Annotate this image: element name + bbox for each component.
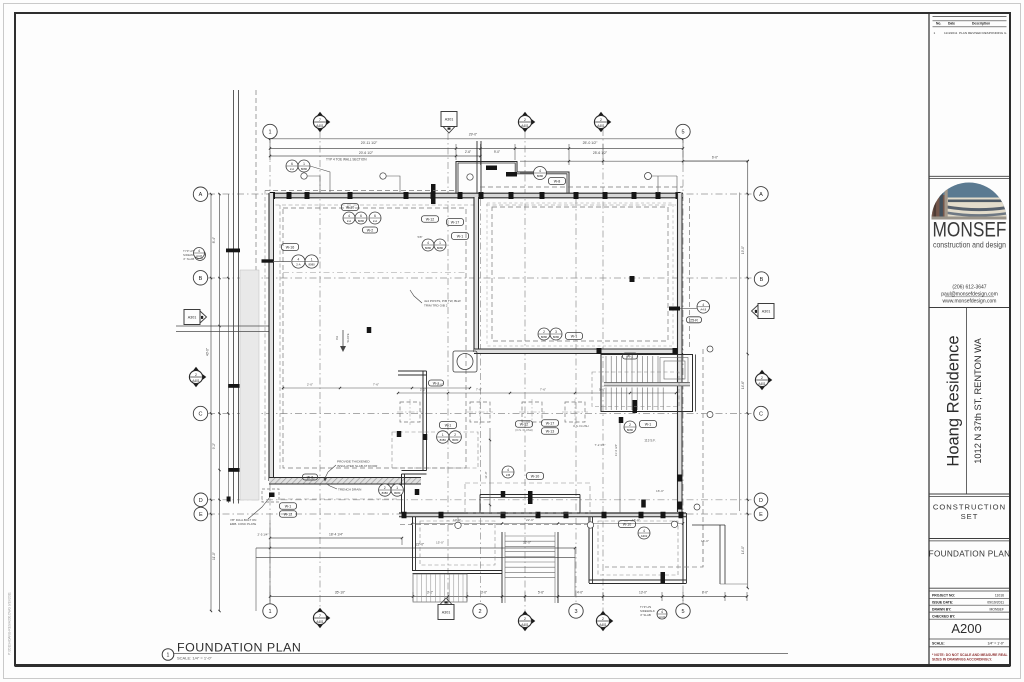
svg-text:113 S.F.: 113 S.F. [644, 439, 656, 443]
svg-text:1: 1 [268, 609, 271, 615]
svg-text:19'-0": 19'-0" [741, 246, 745, 254]
svg-text:8080: 8080 [382, 491, 389, 495]
svg-text:8080: 8080 [437, 246, 444, 250]
grid bubble 2 bottom [473, 604, 487, 618]
svg-text:SET: SET [961, 512, 979, 521]
svg-text:PLAN REVISED RESPONDING G: PLAN REVISED RESPONDING G [959, 31, 1007, 35]
svg-text:A: A [199, 192, 203, 198]
svg-text:PROVIDE THICKENED: PROVIDE THICKENED [337, 460, 370, 464]
section square bottom [438, 605, 454, 620]
top wall posts [270, 192, 275, 199]
svg-text:11'-6 3/4": 11'-6 3/4" [614, 444, 618, 456]
callout pair trench [379, 484, 391, 496]
svg-text:(O.S. FLUSH): (O.S. FLUSH) [515, 428, 532, 432]
svg-text:6'-0": 6'-0" [712, 156, 718, 160]
grid line 1 vertical [269, 136, 271, 604]
svg-text:A: A [759, 192, 763, 198]
top wall band [269, 193, 683, 198]
wtag W-10 left [342, 204, 359, 211]
grid bubble 3 bottom [569, 604, 583, 618]
svg-text:W-10: W-10 [623, 523, 632, 527]
svg-text:8080: 8080 [541, 335, 548, 339]
top dimension row 3 [270, 155, 481, 157]
svg-text:W-12: W-12 [284, 513, 293, 517]
svg-text:4: 4 [661, 610, 663, 614]
entry stair side rails [501, 532, 503, 603]
callout right wall [697, 301, 710, 314]
svg-text:TRENCH DRAIN: TRENCH DRAIN [338, 488, 361, 492]
svg-text:9'-2": 9'-2" [212, 443, 216, 449]
svg-text:4: 4 [539, 169, 541, 173]
grid bubble 5 top [676, 124, 690, 138]
svg-text:1: 1 [303, 162, 305, 166]
svg-text:A4.8: A4.8 [659, 615, 665, 619]
svg-text:Date: Date [948, 22, 955, 26]
svg-text:B: B [199, 276, 203, 282]
svg-text:2: 2 [454, 433, 456, 437]
svg-text:FOUNDATION PLAN: FOUNDATION PLAN [929, 550, 1011, 559]
section diamond bottom a [315, 608, 324, 614]
svg-text:2-A: 2-A [290, 167, 294, 171]
svg-text:16'-0": 16'-0" [656, 489, 664, 493]
dashed room rect center-left [392, 432, 478, 468]
svg-text:1: 1 [167, 653, 170, 659]
svg-text:A401: A401 [599, 623, 607, 627]
grid line 3 vertical [575, 199, 577, 604]
svg-text:W-2: W-2 [367, 229, 374, 233]
svg-text:DRAWN BY:: DRAWN BY: [932, 607, 951, 611]
room tag rects [363, 227, 378, 233]
svg-text:4%: 4% [335, 336, 339, 341]
post left of stairs [597, 348, 602, 354]
grid2 wall extension up [476, 141, 478, 193]
svg-text:MONSEF: MONSEF [989, 607, 1004, 611]
bottom border thick line [15, 664, 1010, 667]
svg-text:W-13: W-13 [546, 430, 555, 434]
svg-text:No.: No. [936, 22, 941, 26]
svg-text:6: 6 [291, 162, 293, 166]
svg-text:8'-0": 8'-0" [702, 591, 708, 595]
callout left margin small [195, 250, 206, 261]
wtag W-1/W-12 bottom-left [280, 503, 297, 510]
svg-text:(206) 612-3647: (206) 612-3647 [952, 285, 986, 291]
svg-text:W-16: W-16 [286, 246, 295, 250]
grid line 4 vertical [602, 129, 604, 614]
svg-text:4: 4 [702, 303, 704, 307]
svg-text:2-A: 2-A [347, 219, 351, 223]
svg-text:2: 2 [524, 118, 526, 122]
E wall posts [402, 512, 407, 519]
interior horizontal wall [474, 349, 683, 354]
svg-text:1: 1 [442, 433, 444, 437]
svg-text:A301: A301 [188, 315, 197, 319]
interior dim line mid [398, 392, 676, 394]
svg-text:1012 N 37th ST, RENTON WA: 1012 N 37th ST, RENTON WA [973, 337, 983, 463]
revision table top line [933, 16, 1007, 18]
svg-text:7'-6": 7'-6" [476, 388, 482, 392]
svg-text:4: 4 [643, 529, 645, 533]
svg-text:4: 4 [427, 241, 429, 245]
dashed line right of wall upper [689, 198, 691, 349]
sidewalk edge lines left [176, 325, 269, 327]
junction circle d [707, 412, 713, 418]
svg-text:5: 5 [681, 609, 684, 615]
callout small left pair [194, 248, 205, 259]
svg-text:W-1: W-1 [627, 355, 634, 359]
dashed site line left [255, 90, 257, 500]
svg-text:4: 4 [198, 249, 200, 253]
svg-text:2'-0": 2'-0" [307, 383, 313, 387]
svg-text:Description: Description [972, 22, 990, 26]
right wing inner dashed [598, 521, 678, 575]
svg-text:C: C [199, 411, 203, 417]
svg-text:11'-0": 11'-0" [484, 471, 488, 478]
svg-text:TRIM TRD G/B 2: TRIM TRD G/B 2 [424, 304, 448, 308]
svg-text:A401: A401 [316, 124, 324, 128]
svg-text:2: 2 [478, 609, 481, 615]
svg-text:B: B [760, 277, 764, 283]
svg-text:4'-0": 4'-0" [577, 591, 583, 595]
stair center post [633, 400, 638, 413]
svg-text:A401: A401 [521, 124, 529, 128]
right room inner dashed rect [492, 207, 668, 341]
svg-text:2'-5 1/4": 2'-5 1/4" [258, 533, 269, 537]
stair width dim [619, 417, 621, 513]
svg-text:14'-0": 14'-0" [741, 546, 745, 554]
bump-out posts [486, 166, 497, 171]
porch upper wall [480, 494, 580, 496]
mid-left wall horizontal [398, 370, 427, 372]
svg-text:8080: 8080 [440, 438, 447, 442]
svg-text:5/8": 5/8" [417, 235, 422, 239]
svg-text:1: 1 [439, 241, 441, 245]
wtag pair mid [542, 420, 559, 427]
section line vertical at 448 [447, 133, 449, 607]
dashed footing line outside left wall [264, 191, 266, 481]
grid bubble E right [754, 507, 768, 521]
section diamond top a [315, 112, 324, 118]
svg-text:8080: 8080 [627, 428, 634, 432]
leader circle b [380, 173, 386, 179]
grid bubble A right [754, 187, 768, 201]
view number bubble [162, 649, 174, 661]
svg-text:2: 2 [195, 373, 197, 377]
grid bubble D left [194, 493, 208, 507]
svg-text:Hoang Residence: Hoang Residence [945, 335, 963, 466]
stair outer edge line [692, 354, 694, 411]
E wall main horizontal [399, 513, 686, 517]
svg-text:W-1: W-1 [571, 335, 578, 339]
svg-text:A4.8: A4.8 [196, 254, 202, 258]
slope arrow [342, 330, 344, 346]
stair upper flight treads [605, 356, 607, 383]
svg-text:C: C [759, 411, 763, 417]
left wall double [269, 193, 274, 481]
svg-text:16'-0": 16'-0" [632, 518, 640, 522]
svg-text:8080: 8080 [301, 167, 308, 171]
svg-text:25'-0 1/2": 25'-0 1/2" [583, 141, 599, 145]
svg-text:7'-6": 7'-6" [540, 388, 546, 392]
property double line left [233, 90, 235, 504]
entry stair treads [505, 535, 555, 537]
svg-text:W-10: W-10 [531, 475, 540, 479]
tall post at grid2 top [431, 184, 436, 204]
svg-text:2-A: 2-A [373, 219, 377, 223]
right lower wing [588, 517, 590, 583]
svg-text:18'-4 1/4": 18'-4 1/4" [329, 533, 344, 537]
callout entry stair [502, 466, 514, 478]
top bump-out wall [456, 162, 569, 194]
top dimension row 1 [270, 138, 683, 140]
svg-text:6: 6 [374, 214, 376, 218]
interior dim line upper left room [283, 387, 470, 389]
right wing dashed patio rect [605, 525, 703, 567]
svg-text:5'-6": 5'-6" [538, 591, 544, 595]
stair lower flight treads [605, 388, 607, 411]
svg-text:4" SLAB: 4" SLAB [183, 257, 194, 261]
wtag W-16 [282, 244, 299, 251]
callout bump-out [534, 167, 547, 180]
section line vertical at 525 [524, 131, 526, 614]
callout pair left room [262, 259, 274, 262]
svg-text:W-17: W-17 [451, 221, 460, 225]
section diamond bottom b [520, 611, 529, 617]
post right wall above E [677, 502, 682, 510]
post interior wall right end [673, 348, 678, 354]
grid bubble C left [193, 406, 207, 420]
garage interior dim dashes [280, 498, 399, 500]
svg-text:6: 6 [360, 214, 362, 218]
patio bottom dim ext [720, 583, 747, 585]
svg-text:1: 1 [311, 258, 313, 262]
left dimension line outer [210, 194, 212, 611]
svg-text:W-1: W-1 [445, 424, 452, 428]
svg-text:2: 2 [600, 118, 602, 122]
svg-text:11'-0": 11'-0" [212, 552, 216, 560]
left dimension line inner [219, 194, 221, 611]
stair dashed surround [592, 372, 679, 407]
title block left divider [928, 13, 930, 666]
left room interior dashed footing rect [283, 208, 466, 468]
post right wall at dashed crossing [677, 475, 682, 482]
svg-text:W-12: W-12 [426, 218, 435, 222]
svg-text:A301: A301 [445, 117, 454, 121]
property corner post [227, 497, 231, 502]
left dimension line third [227, 194, 229, 503]
project name divider [966, 308, 968, 495]
svg-text:11/4/2011: 11/4/2011 [944, 31, 958, 35]
section diamond top b [520, 112, 529, 118]
svg-text:35'-10": 35'-10" [335, 591, 346, 595]
grid bubble D right [754, 493, 768, 507]
grid line B horizontal [208, 277, 753, 279]
svg-text:7'-2 3/4": 7'-2 3/4" [595, 443, 606, 447]
svg-text:1/4" = 1'-0": 1/4" = 1'-0" [987, 642, 1004, 646]
sump pit square and circle [453, 351, 477, 372]
pier footing squares row [400, 402, 420, 422]
junction circle f [671, 521, 677, 527]
svg-text:29'-0": 29'-0" [469, 133, 478, 137]
junction circle c [707, 346, 713, 352]
svg-text:* NOTE: DO NOT SCALE AND MEASU: * NOTE: DO NOT SCALE AND MEASURE REAL [932, 653, 1008, 657]
right dimension line [747, 161, 749, 588]
svg-text:INSULATED SLAB AT DOOR: INSULATED SLAB AT DOOR [337, 464, 378, 468]
svg-text:SCALE: 1/4" = 1'-0": SCALE: 1/4" = 1'-0" [177, 655, 212, 660]
post right wall mid [669, 307, 680, 311]
dashed footing below E wall [400, 524, 590, 526]
svg-text:SIZES IN DRAWINGS ACCORDINGLY.: SIZES IN DRAWINGS ACCORDINGLY. [932, 658, 992, 662]
svg-text:4: 4 [348, 214, 350, 218]
svg-text:16'-0": 16'-0" [701, 539, 709, 543]
dashed line right of building [702, 349, 704, 567]
svg-text:W-8: W-8 [307, 476, 314, 480]
grid bubble 1 top [263, 124, 277, 138]
callout pair mid-left [437, 431, 449, 443]
svg-text:9'-0": 9'-0" [494, 150, 500, 154]
svg-text:7: 7 [319, 118, 321, 122]
svg-text:2: 2 [543, 330, 545, 334]
svg-text:2: 2 [761, 376, 763, 380]
svg-text:14'-6": 14'-6" [741, 381, 745, 389]
stair upper landing nested [660, 358, 688, 383]
svg-text:A401: A401 [521, 623, 529, 627]
svg-text:22'-0": 22'-0" [523, 541, 531, 545]
interior vertical wall grid2 [474, 197, 479, 352]
section square right [758, 304, 774, 319]
small bubble pair bottom [657, 609, 667, 619]
entry stair center post [528, 491, 533, 504]
post on grid B in right room [630, 276, 635, 282]
svg-text:2'-6": 2'-6" [465, 150, 471, 154]
grid line E horizontal [208, 513, 753, 515]
svg-text:PROJECT NO:: PROJECT NO: [932, 593, 955, 597]
grid bubble B left [193, 271, 207, 285]
svg-text:CONSTRUCTION: CONSTRUCTION [933, 503, 1006, 512]
svg-text:40'-0": 40'-0" [206, 348, 210, 356]
svg-text:09/19/2011: 09/19/2011 [987, 600, 1004, 604]
svg-text:A401: A401 [597, 124, 605, 128]
svg-text:O.S. FLUSH: O.S. FLUSH [573, 424, 589, 428]
svg-text:SCALE:: SCALE: [932, 642, 945, 646]
grid bubble E left [194, 507, 208, 521]
grid line A horizontal [208, 193, 753, 195]
bottom sidewalk steps left [413, 574, 467, 602]
grid bubble 5 bottom [676, 604, 690, 618]
svg-text:8080: 8080 [452, 438, 459, 442]
callout pair center [538, 328, 550, 340]
section diamond bottom c [598, 611, 607, 617]
property line ticks [226, 249, 240, 253]
svg-text:8'-4": 8'-4" [212, 237, 216, 243]
junction circle h [455, 522, 461, 528]
svg-text:4" SLAB: 4" SLAB [640, 613, 651, 617]
svg-text:W-1: W-1 [645, 423, 652, 427]
svg-text:construction and design: construction and design [933, 240, 1006, 250]
svg-text:8080: 8080 [537, 174, 544, 178]
dashed offsets above top wall [265, 190, 456, 192]
revision area bottom double line [929, 175, 1009, 177]
leader circle top right [645, 173, 652, 180]
sheet title section [929, 538, 1009, 540]
sidewalk strip left [240, 270, 259, 500]
svg-text:15'-0": 15'-0" [436, 541, 444, 545]
view title underline [174, 653, 788, 655]
svg-text:ISSUE DATE:: ISSUE DATE: [932, 600, 953, 604]
svg-text:W-1: W-1 [457, 235, 464, 239]
svg-text:D: D [199, 498, 203, 504]
project section top line [929, 307, 1009, 309]
svg-text:5'-6": 5'-6" [599, 388, 605, 392]
svg-text:11016: 11016 [995, 593, 1004, 597]
svg-text:2-A: 2-A [296, 262, 300, 266]
svg-text:22'-0": 22'-0" [416, 543, 425, 547]
svg-text:www.monsefdesign.com: www.monsefdesign.com [943, 299, 997, 305]
svg-text:3: 3 [574, 609, 577, 615]
svg-text:5: 5 [681, 129, 684, 135]
patio lines right [692, 524, 725, 526]
leader circle a [301, 173, 307, 179]
svg-text:2: 2 [629, 423, 631, 427]
left lower wing [412, 517, 414, 571]
svg-text:7'-6": 7'-6" [373, 383, 379, 387]
svg-text:25'-6 1/2": 25'-6 1/2" [593, 151, 608, 155]
svg-text:2: 2 [384, 486, 386, 490]
svg-text:W-10: W-10 [346, 206, 355, 210]
svg-text:25-R: 25-R [690, 318, 698, 322]
svg-text:20'-11 1/2": 20'-11 1/2" [361, 141, 378, 145]
mid-left wall step [402, 470, 427, 472]
svg-text:A401: A401 [316, 620, 324, 624]
svg-text:A301: A301 [442, 610, 451, 614]
callout pair center upper [422, 239, 434, 251]
callout A302 bottom [638, 527, 650, 539]
svg-text:W-1: W-1 [433, 382, 440, 386]
svg-text:P:\2011\HOANG-RES\A200.DWG 9/: P:\2011\HOANG-RES\A200.DWG 9/19/2011 [8, 592, 12, 655]
wtag W-17 center [447, 219, 464, 226]
interior dim line lower [412, 523, 683, 525]
left wing inner dashed [420, 521, 495, 565]
stair block right outline [601, 355, 693, 412]
construction set section [929, 493, 1009, 495]
svg-text:1: 1 [934, 31, 936, 35]
section diamond left [191, 367, 200, 373]
entry interior vertical dim [489, 428, 491, 512]
svg-text:A302: A302 [641, 534, 648, 538]
section diamond top c [596, 112, 605, 118]
misc posts [367, 327, 372, 333]
right wing post [661, 572, 666, 583]
svg-text:4x4 POSTS, P/B TW, BLW: 4x4 POSTS, P/B TW, BLW [424, 299, 461, 303]
post between D and E [641, 500, 646, 508]
section square top [441, 112, 457, 127]
porch dashed outline center [465, 483, 590, 513]
svg-text:MONSEF: MONSEF [933, 219, 1007, 242]
svg-text:3'-2": 3'-2" [427, 591, 433, 595]
grid line 2 vertical [480, 199, 482, 604]
svg-text:2: 2 [602, 617, 604, 621]
svg-text:8080: 8080 [358, 219, 365, 223]
footing square bottom-left corner [262, 489, 279, 502]
wtag W-8 [549, 178, 566, 185]
svg-text:8080: 8080 [308, 262, 315, 266]
svg-text:8080: 8080 [553, 335, 560, 339]
section line vertical at 320 [319, 131, 321, 611]
svg-text:8080: 8080 [394, 491, 401, 495]
right inner extension line [739, 193, 741, 512]
svg-text:TYP 4 TOE WALL SECTION: TYP 4 TOE WALL SECTION [326, 158, 367, 162]
grid line C horizontal [208, 413, 753, 415]
svg-text:A401: A401 [192, 379, 200, 383]
